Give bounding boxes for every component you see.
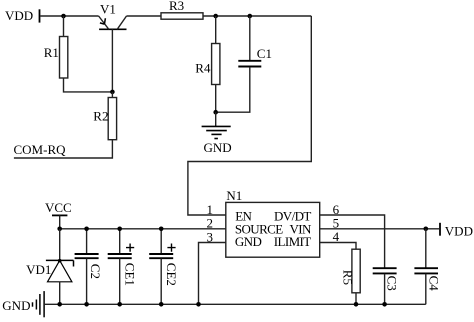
svg-text:VDD: VDD xyxy=(445,223,473,238)
capacitor C2 xyxy=(75,229,103,304)
node junction CE2/rail top xyxy=(159,227,164,232)
node junction C2/rail top xyxy=(84,227,89,232)
wire R1 bottom to base node xyxy=(64,78,113,92)
svg-text:VDD: VDD xyxy=(5,8,33,23)
node junction CE2/bottom xyxy=(159,302,164,307)
node junction pin3/bottom xyxy=(196,302,201,307)
node junction VDD/R1 xyxy=(61,14,66,19)
capacitor CE1 xyxy=(108,229,138,304)
wire junction to R1 top xyxy=(63,16,65,37)
wire pin2 rail (VCC rail) xyxy=(60,228,226,230)
svg-text:CE2: CE2 xyxy=(164,263,179,286)
diode VD1 (zener) xyxy=(26,229,73,304)
svg-text:VD1: VD1 xyxy=(26,262,51,277)
wire base node to R2 top xyxy=(111,92,113,98)
svg-text:C2: C2 xyxy=(88,264,103,279)
wire C1 bottom to ground node xyxy=(216,67,250,112)
wire right drop to pin 1 xyxy=(188,16,311,215)
node junction CE1/bottom xyxy=(117,302,122,307)
capacitor C1 xyxy=(238,16,272,67)
node junction R3/R4 xyxy=(213,14,218,19)
svg-text:C1: C1 xyxy=(257,46,272,61)
svg-text:GND: GND xyxy=(2,298,30,313)
net label VCC xyxy=(45,200,72,229)
node junction C3/bottom xyxy=(382,302,387,307)
svg-text:GND: GND xyxy=(204,140,232,155)
net label VDD (right) xyxy=(440,223,473,239)
svg-text:GND: GND xyxy=(235,234,262,249)
IC N1 xyxy=(226,188,320,257)
svg-text:C3: C3 xyxy=(385,276,400,291)
resistor R3 xyxy=(161,0,203,19)
wire R2 to COM-RQ xyxy=(14,140,113,158)
node junction R4/C1/gnd xyxy=(213,110,218,115)
resistor R1 xyxy=(44,37,68,79)
wire pin4 to R5 xyxy=(320,243,356,250)
ground (bottom-left) xyxy=(2,291,44,317)
transistor V1 xyxy=(99,2,127,92)
wire pin5 to VDD xyxy=(320,228,439,230)
svg-text:VCC: VCC xyxy=(45,200,72,215)
wire bottom rail xyxy=(44,303,426,305)
node junction R3/C1 xyxy=(248,14,253,19)
node junction C4/pin5 xyxy=(424,227,429,232)
node junction VCC/rail xyxy=(57,227,62,232)
net label VDD (top-left) xyxy=(5,8,40,23)
capacitor CE2 xyxy=(149,229,179,304)
resistor R5 xyxy=(340,249,360,304)
svg-text:CE1: CE1 xyxy=(122,263,137,286)
svg-text:R4: R4 xyxy=(195,61,211,76)
wire V1 collector to R3 xyxy=(127,15,162,17)
resistor R2 xyxy=(93,98,116,140)
resistor R4 xyxy=(195,44,220,85)
node junction CE1/rail top xyxy=(117,227,122,232)
wire R4 bottom to ground node xyxy=(215,85,217,113)
node junction VD1/bottom xyxy=(57,302,62,307)
wire VDD to V1 emitter xyxy=(41,15,99,17)
node junction C2/bottom xyxy=(84,302,89,307)
ground (under R4) xyxy=(202,112,232,155)
wire to R4 top xyxy=(215,16,217,44)
svg-text:ILIMIT: ILIMIT xyxy=(274,234,311,249)
capacitor C3 xyxy=(373,268,400,304)
node junction base/R2 xyxy=(110,90,115,95)
svg-text:R3: R3 xyxy=(169,0,184,13)
wire R3 to right corner xyxy=(203,15,311,17)
wire pin6 to C3 xyxy=(320,215,385,268)
svg-text:N1: N1 xyxy=(226,188,242,203)
svg-text:R5: R5 xyxy=(340,270,355,285)
svg-text:R2: R2 xyxy=(93,109,108,124)
wire pin3 to bottom rail xyxy=(199,243,226,305)
svg-text:C4: C4 xyxy=(427,276,442,292)
capacitor C4 xyxy=(414,229,441,304)
svg-text:V1: V1 xyxy=(100,2,116,17)
svg-text:COM-RQ: COM-RQ xyxy=(14,142,67,157)
node junction R5/bottom xyxy=(354,302,359,307)
svg-text:R1: R1 xyxy=(44,45,59,60)
